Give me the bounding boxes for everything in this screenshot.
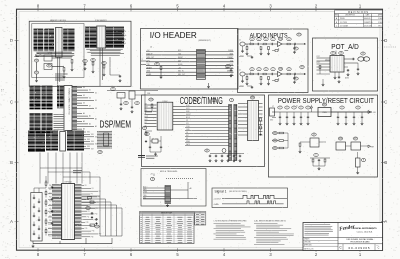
svg-text:D1: D1 — [89, 90, 91, 92]
power rail — [270, 103, 377, 125]
DSP trellis wires — [82, 196, 123, 236]
svg-text:D6: D6 — [83, 103, 85, 105]
latch cluster C2 — [46, 131, 58, 150]
svg-text:FILT: FILT — [145, 122, 148, 124]
svg-text:Corona, CA U.S.A.: Corona, CA U.S.A. — [357, 231, 373, 234]
memory bus wires — [34, 48, 124, 86]
svg-text:RESET: RESET — [178, 57, 183, 59]
svg-text:C6: C6 — [136, 103, 138, 105]
svg-text:PD12: PD12 — [48, 232, 52, 234]
POT_A/D title — [331, 44, 359, 51]
svg-text:J5: J5 — [362, 53, 364, 55]
svg-text:MIDI_OUT: MIDI_OUT — [178, 74, 185, 76]
CODEC/TIMING box — [142, 95, 265, 167]
svg-text:D7: D7 — [89, 105, 91, 107]
svg-text:Signal 1: Signal 1 — [215, 189, 227, 193]
svg-text:TX: TX — [142, 59, 144, 61]
reset supervisor — [336, 137, 374, 150]
POWER title — [278, 96, 374, 105]
svg-text:D1: D1 — [296, 106, 298, 108]
svg-text:+5V: +5V — [178, 67, 181, 69]
svg-text:P10: P10 — [95, 214, 98, 216]
decode cluster B2 — [42, 114, 53, 134]
svg-text:D0: D0 — [83, 87, 85, 89]
svg-text:REV: REV — [335, 15, 338, 17]
svg-text:PD4: PD4 — [49, 201, 52, 203]
svg-text:LRCK: LRCK — [186, 108, 190, 110]
svg-text:U8: U8 — [35, 60, 37, 62]
svg-text:C31: C31 — [95, 226, 98, 228]
timing IC U14 — [238, 96, 263, 141]
svg-text:MOD & TRIG/LEVEL: MOD & TRIG/LEVEL — [160, 171, 178, 173]
svg-text:J7: J7 — [272, 106, 274, 108]
svg-text:U15: U15 — [195, 100, 198, 102]
bypass cap bank box — [31, 193, 42, 242]
svg-text:U14: U14 — [251, 97, 254, 99]
svg-text:PD1: PD1 — [49, 189, 52, 191]
svg-text:B: B — [10, 160, 13, 165]
svg-text:VR1: VR1 — [323, 104, 326, 106]
svg-text:INT: INT — [186, 138, 188, 140]
memory glue logic — [34, 53, 87, 82]
svg-text:R: R — [250, 72, 251, 74]
svg-text:PROD: PROD — [340, 18, 346, 20]
svg-text:MCLK: MCLK — [186, 117, 190, 119]
decode cluster A3 — [57, 86, 64, 108]
latch block 2 — [97, 132, 112, 154]
svg-text:POT2: POT2 — [317, 62, 321, 64]
address bus stubs — [91, 29, 127, 82]
svg-text:SD5: SD5 — [95, 144, 98, 146]
svg-text:POT1: POT1 — [317, 56, 321, 58]
POT_A/D circuit — [317, 51, 370, 86]
svg-text:PD2: PD2 — [49, 193, 52, 195]
CODEC/TIMING title — [180, 96, 223, 107]
svg-text:SIGNAL CONNECT A BUS U10: SIGNAL CONNECT A BUS U10 — [68, 88, 71, 115]
svg-text:D5: D5 — [95, 100, 97, 102]
latch net stubs — [84, 132, 98, 151]
svg-text:PD7: PD7 — [49, 212, 52, 214]
title block — [303, 223, 383, 251]
svg-text:J6: J6 — [231, 100, 233, 102]
svg-text:D2: D2 — [95, 92, 97, 94]
svg-text:1. NOTES:UNLESS OTHERWISE SPE: 1. NOTES:UNLESS OTHERWISE SPECIFIED — [214, 221, 248, 223]
svg-text:MEMORY_DECODE: MEMORY_DECODE — [50, 20, 67, 22]
svg-text:TRIG: TRIG — [143, 195, 146, 197]
svg-text:SD1: SD1 — [91, 134, 94, 136]
DSP U1 pins right — [75, 185, 82, 239]
IC U10 body — [64, 86, 72, 131]
svg-text:P6: P6 — [97, 202, 99, 204]
svg-text:27-OCT-97: 27-OCT-97 — [364, 26, 372, 28]
svg-text:P16: P16 — [92, 231, 95, 233]
svg-text:TP1: TP1 — [297, 34, 300, 36]
SRAM U4 pin bus left — [85, 27, 96, 48]
svg-text:U9: U9 — [35, 72, 37, 74]
AUDIO INPUTS box — [238, 29, 309, 93]
svg-text:SDIN: SDIN — [186, 111, 189, 113]
svg-text:C2: C2 — [227, 66, 229, 68]
EPROM U2 body — [56, 28, 63, 58]
svg-text:CCLK: CCLK — [186, 126, 190, 128]
svg-text:U13: U13 — [149, 99, 152, 101]
codec U13 — [145, 98, 186, 130]
POWER box — [269, 95, 378, 177]
audio channel 1 — [239, 37, 306, 55]
latch cluster C3 — [67, 131, 84, 150]
bottom bus wire — [32, 238, 113, 247]
decode cluster B1 — [30, 114, 41, 134]
IC U12 body — [60, 132, 66, 152]
svg-text:C4: C4 — [84, 61, 86, 63]
svg-text:+5V: +5V — [150, 174, 153, 176]
IC U10 pins — [72, 87, 77, 130]
svg-text:11-SEPT-95: 11-SEPT-95 — [364, 22, 373, 24]
svg-text:+15V: +15V — [239, 56, 244, 58]
POT_A/D box — [313, 38, 378, 91]
svg-text:PD0: PD0 — [49, 185, 52, 187]
oscillator caps — [86, 197, 99, 229]
notes block 2 — [254, 220, 294, 245]
svg-text:R12: R12 — [212, 100, 215, 102]
svg-text:PD11: PD11 — [48, 228, 51, 230]
svg-text:RST: RST — [186, 135, 189, 137]
memory map table — [140, 211, 195, 243]
svg-text:PD8: PD8 — [49, 216, 52, 218]
decode cluster A2 — [42, 86, 53, 110]
svg-text:REF: REF — [145, 110, 148, 112]
AUDIO INPUTS title — [250, 32, 288, 39]
svg-text:SD6: SD6 — [87, 146, 90, 148]
memory block box — [29, 20, 131, 87]
svg-text:SD7: SD7 — [91, 148, 94, 150]
svg-text:D3: D3 — [125, 43, 127, 45]
svg-text:Q2: Q2 — [206, 150, 208, 152]
svg-text:PD9: PD9 — [49, 220, 52, 222]
svg-text:R5: R5 — [103, 63, 105, 65]
svg-text:POT_A/D: POT_A/D — [331, 44, 359, 51]
svg-text:P9: P9 — [88, 211, 90, 213]
svg-text:U17: U17 — [354, 138, 357, 140]
codec pullups — [142, 127, 152, 143]
svg-text:+15V: +15V — [239, 86, 244, 88]
Signal box — [212, 188, 288, 208]
svg-text:R: R — [250, 42, 251, 44]
SRAM U3 pin bus — [63, 29, 74, 52]
header wires left — [146, 50, 197, 76]
svg-text:CHECKED: CHECKED — [304, 242, 311, 244]
svg-text:RST: RST — [371, 147, 374, 149]
svg-text:TP2: TP2 — [300, 67, 303, 69]
decode cluster B3 — [54, 115, 64, 130]
pullup resistor bank — [34, 176, 53, 236]
svg-text:PGM_MEMORY: PGM_MEMORY — [95, 20, 108, 22]
net labels — [73, 171, 82, 173]
revisions table — [335, 10, 384, 28]
svg-text:SD4: SD4 — [91, 141, 94, 143]
svg-text:CODEC: CODEC — [162, 101, 168, 103]
svg-text:R20: R20 — [86, 208, 89, 210]
svg-text:GND: GND — [270, 120, 273, 122]
aux table — [195, 212, 206, 226]
svg-text:DSP56004: DSP56004 — [64, 182, 71, 184]
svg-text:09-09-95: 09-09-95 — [364, 18, 370, 20]
decode cluster A1 — [30, 86, 41, 110]
svg-text:A: A — [10, 219, 13, 224]
clock gen circuit — [107, 88, 158, 113]
svg-text:U16: U16 — [339, 138, 342, 140]
svg-text:CO 7959: CO 7959 — [340, 22, 347, 24]
svg-text:C: C — [10, 100, 13, 105]
svg-text:PD13: PD13 — [48, 236, 52, 238]
I/O HEADER title — [150, 31, 211, 42]
svg-text:CS: CS — [186, 132, 188, 134]
DSP U1 pins left — [52, 185, 62, 239]
svg-text:DREQ: DREQ — [186, 141, 190, 143]
svg-text:J2: J2 — [239, 70, 241, 72]
EPROM U2 pin bus left — [34, 29, 44, 52]
fold marks — [1, 47, 396, 91]
DSP right nets — [82, 185, 102, 238]
DSP bus risers — [40, 153, 100, 197]
svg-text:(MIDI/IN/OUT): (MIDI/IN/OUT) — [199, 40, 212, 42]
svg-text:P2: P2 — [99, 191, 101, 193]
signal waveforms — [214, 195, 288, 206]
svg-text:P3: P3 — [91, 194, 93, 196]
header wires right — [205, 50, 234, 76]
svg-text:U18: U18 — [98, 152, 101, 154]
reset transistor Q1 — [299, 133, 327, 153]
timing header bar 1 — [229, 105, 232, 161]
DSP left pin labels — [48, 185, 52, 238]
svg-text:CO 10568: CO 10568 — [340, 26, 348, 28]
pots connector box — [141, 169, 206, 207]
timing bus — [185, 105, 229, 146]
svg-text:RESET: RESET — [228, 57, 233, 59]
svg-text:SDOUT: SDOUT — [186, 114, 191, 116]
svg-text:P4: P4 — [98, 197, 100, 199]
svg-text:PD6: PD6 — [49, 208, 52, 210]
svg-text:J4: J4 — [150, 47, 152, 49]
svg-text:LEVEL: LEVEL — [143, 192, 148, 194]
svg-text:SD3: SD3 — [87, 139, 90, 141]
bypass caps — [33, 195, 40, 240]
svg-text:Q1: Q1 — [313, 134, 315, 136]
svg-text:MIDI_OUT: MIDI_OUT — [147, 57, 155, 59]
svg-text:C: C — [378, 247, 380, 250]
section title DSP/MEM — [100, 120, 132, 131]
svg-text:MIDI_IN: MIDI_IN — [178, 71, 184, 73]
svg-text:PD10: PD10 — [48, 224, 52, 226]
reset RC network — [310, 152, 366, 174]
svg-text:DSP/MEM: DSP/MEM — [100, 120, 132, 131]
svg-text:P11: P11 — [87, 216, 90, 218]
pots connector J8 — [143, 174, 197, 207]
audio rails — [239, 33, 304, 89]
SRAM U4 pin bus right — [106, 27, 124, 48]
svg-text:C.M.M.: C.M.M. — [378, 18, 384, 20]
svg-text:PD3: PD3 — [49, 197, 52, 199]
svg-text:D4: D4 — [89, 98, 91, 100]
svg-text:D8: D8 — [95, 108, 97, 110]
svg-text:PD5: PD5 — [49, 205, 52, 207]
svg-text:MUSICAL INSTRUMENTS: MUSICAL INSTRUMENTS — [352, 227, 377, 230]
svg-text:CDIN: CDIN — [186, 129, 189, 131]
cap marks — [138, 156, 145, 158]
divider resistors — [272, 132, 288, 150]
header discretes — [141, 47, 233, 88]
header J4 connector — [197, 50, 206, 80]
EPROM U2 pin bus right — [44, 29, 54, 52]
svg-text:C5: C5 — [125, 103, 127, 105]
latch cluster C1 — [28, 131, 45, 153]
svg-text:J1: J1 — [239, 40, 241, 42]
svg-text:R2: R2 — [48, 65, 50, 67]
svg-text:RESET: RESET — [147, 67, 152, 69]
svg-text:SD0: SD0 — [87, 132, 90, 134]
I/O HEADER box — [141, 29, 239, 90]
svg-text:REV: REV — [376, 245, 379, 247]
codec bypass caps — [194, 99, 244, 162]
data bus stubs — [77, 87, 97, 131]
crystal circuit Y2 — [145, 133, 162, 159]
svg-text:P15: P15 — [85, 228, 88, 230]
svg-text:+CLKOUT: +CLKOUT — [214, 198, 221, 200]
svg-text:PROCESSOR BOARD: PROCESSOR BOARD — [350, 241, 370, 244]
svg-text:C8: C8 — [340, 53, 342, 55]
svg-text:P13: P13 — [86, 222, 89, 224]
svg-text:P0: P0 — [85, 185, 87, 187]
svg-text:0 0 - 0 3 9 3 0 5: 0 0 - 0 3 9 3 0 5 — [348, 246, 369, 250]
svg-text:I/O HEADER: I/O HEADER — [150, 31, 197, 40]
svg-text:R9: R9 — [143, 128, 145, 130]
svg-text:SCLK: SCLK — [186, 105, 190, 107]
svg-text:DESCRIPTION: DESCRIPTION — [345, 15, 355, 17]
svg-text:R7: R7 — [156, 64, 158, 66]
svg-text:Y1: Y1 — [112, 89, 114, 91]
svg-text:U7: U7 — [332, 53, 334, 55]
svg-text:MOD: MOD — [143, 187, 146, 189]
svg-text:D3: D3 — [83, 95, 85, 97]
DSP U1 body — [62, 182, 75, 240]
svg-text:J8: J8 — [152, 179, 154, 181]
svg-text:R4: R4 — [92, 60, 94, 62]
svg-text:T.F.T.: T.F.T. — [378, 26, 382, 28]
svg-text:P18: P18 — [91, 236, 94, 238]
audio channel 2 — [239, 67, 306, 85]
notes block 1 — [214, 221, 251, 240]
svg-text:C.M.M.: C.M.M. — [378, 22, 384, 24]
timing header bar 2 — [234, 105, 237, 161]
svg-text:XTO: XTO — [186, 123, 189, 125]
SRAM U4 body — [97, 26, 106, 48]
Signal title — [215, 189, 248, 193]
